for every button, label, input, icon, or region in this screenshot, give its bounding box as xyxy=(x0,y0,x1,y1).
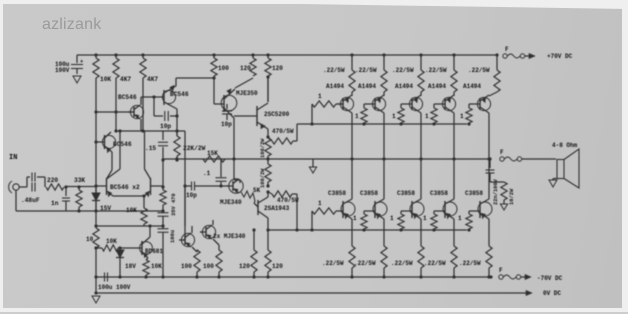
capacitor C7 10p xyxy=(226,104,228,109)
svg-text:1: 1 xyxy=(353,215,357,222)
svg-text:.22/5W: .22/5W xyxy=(424,260,446,267)
wire collector bottom col3 xyxy=(420,159,422,199)
wire collector top col3 xyxy=(420,113,422,159)
svg-text:0V DC: 0V DC xyxy=(543,290,561,297)
svg-text:1: 1 xyxy=(392,113,396,120)
svg-text:120: 120 xyxy=(272,263,283,270)
svg-text:A1494: A1494 xyxy=(358,83,376,90)
svg-text:.22/5W: .22/5W xyxy=(425,67,447,74)
wire collector bottom col2 xyxy=(383,159,385,199)
svg-text:.22/5W: .22/5W xyxy=(323,67,345,74)
bottom gray strip xyxy=(0,312,628,314)
wire collector bottom col4 xyxy=(453,159,455,199)
svg-text:A1494: A1494 xyxy=(395,83,413,90)
svg-text:100: 100 xyxy=(203,263,214,270)
wire collector top col1 xyxy=(351,113,353,159)
wire collector top col4 xyxy=(453,113,455,159)
down arrow node at mid rail xyxy=(312,159,314,167)
svg-text:.22/5W: .22/5W xyxy=(468,67,490,74)
resistor R12 120 top xyxy=(251,53,254,56)
svg-text:1n: 1n xyxy=(51,200,59,207)
svg-text:1: 1 xyxy=(355,113,359,120)
svg-text:15V: 15V xyxy=(100,205,111,212)
svg-text:.22/5W: .22/5W xyxy=(391,260,413,267)
svg-text:120: 120 xyxy=(240,65,251,72)
wire top base bus y124 xyxy=(297,123,467,125)
svg-text:5K: 5K xyxy=(253,187,261,194)
svg-text:C3858: C3858 xyxy=(397,190,415,197)
wire mid output rail xyxy=(163,158,490,160)
svg-text:-70V DC: -70V DC xyxy=(537,275,563,282)
svg-text:35V 470: 35V 470 xyxy=(171,193,177,216)
svg-text:C3858: C3858 xyxy=(328,190,346,197)
svg-text:.22/5W: .22/5W xyxy=(322,260,344,267)
svg-text:A1494: A1494 xyxy=(326,83,344,90)
svg-text:100: 100 xyxy=(218,65,229,72)
svg-text:.22/5W: .22/5W xyxy=(459,260,481,267)
svg-text:120: 120 xyxy=(239,263,250,270)
capacitor C2 10p xyxy=(176,109,178,136)
diode D1 zener 15V xyxy=(95,187,97,194)
wire top +70V rail xyxy=(77,54,497,56)
capacitor C-PSU1 100u/100V xyxy=(76,55,78,63)
ground for C-PSU1 xyxy=(73,76,81,83)
capacitor C6 feedback 100u 35V with resistor 470 xyxy=(162,159,164,190)
svg-text:15K: 15K xyxy=(207,150,218,157)
wire y226 bias row xyxy=(96,225,163,227)
wire collector top col5 xyxy=(488,113,490,159)
svg-text:100V: 100V xyxy=(55,67,70,74)
svg-text:C3858: C3858 xyxy=(360,190,378,197)
resistor R24 zobel 10/2W xyxy=(501,182,507,200)
capacitor C5 1n xyxy=(65,187,67,196)
svg-text:100u 100V: 100u 100V xyxy=(98,284,131,291)
svg-text:10K: 10K xyxy=(126,207,137,214)
diode D2 zener 18V xyxy=(119,248,121,251)
svg-text:33K: 33K xyxy=(74,177,85,184)
svg-text:10/2W: 10/2W xyxy=(509,188,515,205)
svg-text:F: F xyxy=(499,267,503,274)
svg-text:C3858: C3858 xyxy=(465,190,483,197)
svg-text:F: F xyxy=(505,46,509,53)
svg-text:10p: 10p xyxy=(221,121,232,128)
wire collector top col2 xyxy=(383,113,385,159)
svg-text:4-8 Ohm: 4-8 Ohm xyxy=(552,142,578,149)
svg-text:C3858: C3858 xyxy=(430,190,448,197)
svg-text:.15: .15 xyxy=(145,145,156,152)
svg-text:1: 1 xyxy=(423,215,427,222)
svg-text:18V: 18V xyxy=(125,263,136,270)
svg-text:470/5W: 470/5W xyxy=(277,197,299,204)
svg-text:1: 1 xyxy=(425,113,429,120)
svg-text:10K: 10K xyxy=(106,238,117,245)
svg-text:4K7: 4K7 xyxy=(147,76,158,83)
down arrow zobel xyxy=(500,204,507,210)
wire main left vertical xyxy=(95,131,97,187)
svg-text:A1494: A1494 xyxy=(428,83,446,90)
wire collector bottom col5 xyxy=(488,159,490,199)
svg-text:22K/2W: 22K/2W xyxy=(183,145,206,152)
svg-text:100/2W: 100/2W xyxy=(260,138,266,158)
svg-text:1: 1 xyxy=(390,215,394,222)
svg-text:100: 100 xyxy=(181,263,192,270)
wire vas vertical xyxy=(184,131,186,240)
photo top edge wedge xyxy=(300,0,628,9)
svg-text:A1494: A1494 xyxy=(463,83,481,90)
svg-text:.1: .1 xyxy=(203,170,211,177)
svg-text:.22/5W: .22/5W xyxy=(355,67,377,74)
wire -70V rail xyxy=(96,276,491,278)
svg-text:1: 1 xyxy=(318,200,322,207)
input jack J1 xyxy=(13,184,19,190)
resistor R11 100 top xyxy=(212,53,215,56)
wire collector bottom col1 xyxy=(351,159,353,199)
svg-text:10p: 10p xyxy=(160,123,171,130)
wire y131 xyxy=(95,112,97,131)
svg-text:10p: 10p xyxy=(186,192,197,199)
svg-text:10K: 10K xyxy=(151,263,162,270)
svg-text:2x MJE340: 2x MJE340 xyxy=(213,233,246,240)
svg-text:1: 1 xyxy=(460,113,464,120)
wire input return xyxy=(15,190,17,211)
svg-text:MJE340: MJE340 xyxy=(220,199,242,206)
fuse F2 output xyxy=(488,157,491,160)
svg-text:+: + xyxy=(80,58,84,65)
svg-text:120: 120 xyxy=(272,65,283,72)
svg-text:2SC5200: 2SC5200 xyxy=(264,111,290,118)
svg-text:100u: 100u xyxy=(170,230,176,243)
capacitor C9 10p xyxy=(191,182,193,191)
svg-text:100/2W: 100/2W xyxy=(260,168,266,188)
svg-text:.22/5W: .22/5W xyxy=(354,260,376,267)
watermark azlizank xyxy=(42,16,101,34)
wire driver to bottom bus xyxy=(296,194,298,230)
resistor R13 120 top xyxy=(266,53,269,56)
svg-text:4K7: 4K7 xyxy=(120,76,131,83)
ground at speaker xyxy=(549,180,557,187)
fuse F3 -70V xyxy=(489,275,492,278)
svg-text:.48uF: .48uF xyxy=(21,197,40,204)
svg-text:+70V DC: +70V DC xyxy=(547,53,573,60)
wire bottom base bus y230 xyxy=(268,229,467,231)
svg-text:F: F xyxy=(500,149,504,156)
svg-text:1: 1 xyxy=(318,93,322,100)
resistor R1 10K xyxy=(94,53,97,56)
svg-text:BC546: BC546 xyxy=(118,94,137,101)
svg-text:1: 1 xyxy=(458,215,462,222)
svg-text:MJE350: MJE350 xyxy=(236,90,258,97)
transistor Q5 BC546 x2 right xyxy=(150,178,152,195)
wire 0V rail xyxy=(96,292,526,294)
resistor R3 4K7 xyxy=(141,53,144,56)
svg-text:2SA1943: 2SA1943 xyxy=(264,205,290,212)
capacitor C11 zobel 22u/100V xyxy=(489,159,491,168)
wire driver to top bus xyxy=(296,124,298,141)
svg-text:220: 220 xyxy=(47,177,58,184)
svg-text:10K: 10K xyxy=(100,76,111,83)
capacitor C4 input .48uF xyxy=(26,177,28,187)
resistor R2 4K7 xyxy=(114,53,117,56)
svg-text:BC546 x2: BC546 x2 xyxy=(110,184,140,191)
svg-text:.22/5W: .22/5W xyxy=(392,67,414,74)
svg-text:IN: IN xyxy=(9,154,17,162)
wire y112 xyxy=(96,111,133,113)
svg-text:470/5W: 470/5W xyxy=(272,128,294,135)
ground at 0V rail xyxy=(94,291,97,294)
transistor Q11 2x MJE340 a xyxy=(181,233,194,246)
